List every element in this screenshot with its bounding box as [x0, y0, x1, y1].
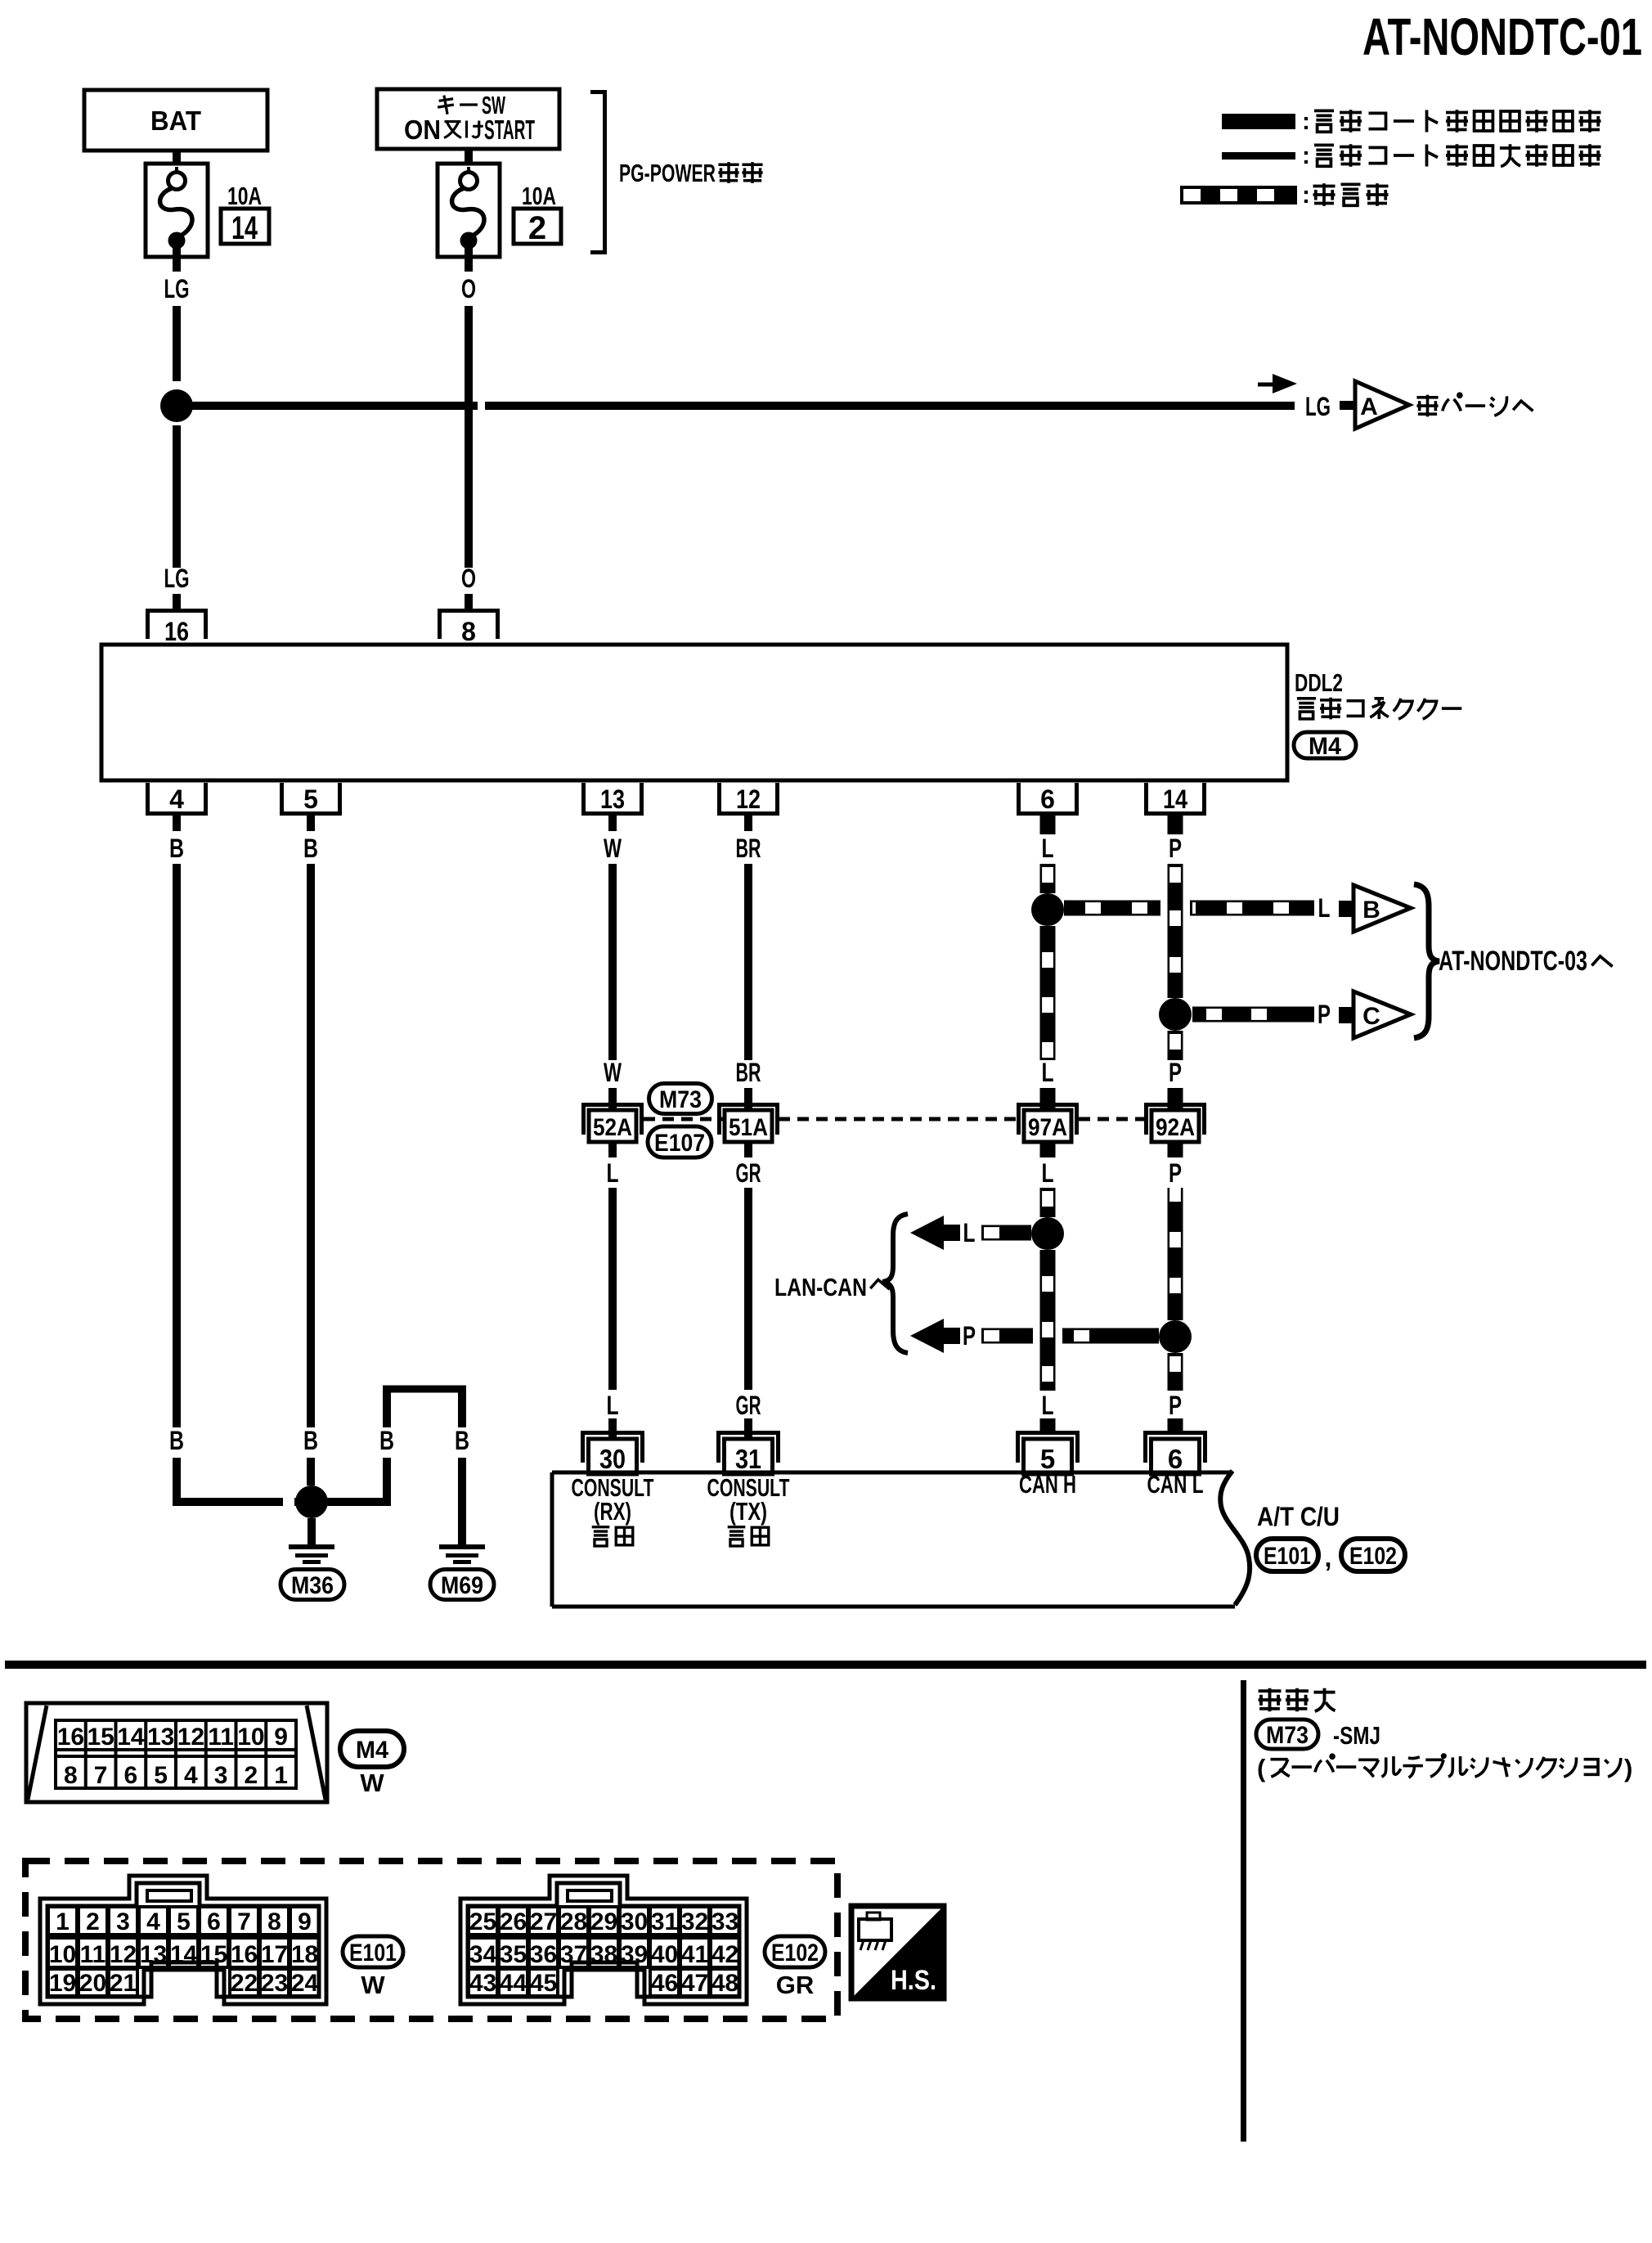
svg-text:E102: E102 — [771, 1940, 819, 1967]
svg-text:45: 45 — [530, 1970, 557, 1997]
svg-text:CAN L: CAN L — [1147, 1470, 1204, 1499]
svg-text:L: L — [607, 1158, 619, 1188]
svg-text:2: 2 — [528, 210, 546, 246]
svg-text:L: L — [1042, 1158, 1054, 1188]
svg-text:7: 7 — [94, 1762, 108, 1789]
svg-text:M69: M69 — [441, 1572, 483, 1599]
svg-text:M73: M73 — [659, 1086, 702, 1113]
svg-text:10A: 10A — [227, 182, 262, 210]
svg-text:12: 12 — [177, 1724, 204, 1751]
svg-text:PG-POWER: PG-POWER — [619, 159, 716, 187]
svg-text:): ) — [1624, 1754, 1632, 1782]
svg-text:P: P — [1169, 1391, 1182, 1420]
svg-text:28: 28 — [560, 1908, 587, 1935]
svg-text:31: 31 — [651, 1908, 678, 1935]
svg-text:M4: M4 — [1309, 733, 1341, 760]
svg-text:4: 4 — [184, 1762, 198, 1789]
svg-text:37: 37 — [560, 1941, 587, 1968]
svg-text:GR: GR — [736, 1158, 761, 1188]
svg-text:52A: 52A — [593, 1114, 632, 1141]
svg-text:14: 14 — [170, 1941, 198, 1968]
svg-text:LG: LG — [164, 274, 190, 303]
svg-text:B: B — [169, 834, 184, 863]
svg-text:15: 15 — [87, 1724, 114, 1751]
svg-text:B: B — [379, 1426, 394, 1455]
svg-text:48: 48 — [712, 1970, 738, 1997]
svg-text:1: 1 — [56, 1908, 70, 1935]
svg-text:6: 6 — [1040, 784, 1055, 814]
svg-text:START: START — [484, 115, 535, 145]
svg-text:L: L — [1042, 1391, 1054, 1420]
svg-text:23: 23 — [261, 1970, 288, 1997]
svg-text:30: 30 — [621, 1908, 648, 1935]
svg-text:BAT: BAT — [150, 106, 201, 136]
svg-text:E101: E101 — [349, 1940, 397, 1967]
svg-text:L: L — [963, 1218, 976, 1247]
svg-text:40: 40 — [651, 1941, 678, 1968]
svg-text:2: 2 — [245, 1762, 258, 1789]
svg-text:21: 21 — [110, 1970, 137, 1997]
svg-text:16: 16 — [164, 617, 189, 646]
svg-text:26: 26 — [500, 1908, 527, 1935]
svg-text:92A: 92A — [1156, 1114, 1195, 1141]
svg-text:8: 8 — [267, 1908, 281, 1935]
svg-text:33: 33 — [712, 1908, 738, 1935]
svg-text:47: 47 — [681, 1970, 708, 1997]
svg-text::: : — [1302, 108, 1310, 135]
svg-text:19: 19 — [49, 1970, 76, 1997]
svg-text:9: 9 — [298, 1908, 312, 1935]
svg-text::: : — [1302, 142, 1310, 169]
svg-text:3: 3 — [214, 1762, 228, 1789]
svg-text:13: 13 — [140, 1941, 167, 1968]
svg-text:32: 32 — [681, 1908, 708, 1935]
svg-text:6: 6 — [207, 1908, 221, 1935]
svg-text:12: 12 — [110, 1941, 137, 1968]
svg-text:35: 35 — [500, 1941, 527, 1968]
svg-text:39: 39 — [621, 1941, 648, 1968]
svg-text:42: 42 — [712, 1941, 738, 1968]
svg-text::: : — [1302, 182, 1310, 209]
svg-text:30: 30 — [599, 1444, 626, 1474]
svg-text:W: W — [360, 1769, 384, 1797]
svg-text:A/T C/U: A/T C/U — [1257, 1502, 1340, 1531]
svg-text:P: P — [963, 1321, 976, 1351]
svg-text:10A: 10A — [522, 182, 556, 210]
svg-text:5: 5 — [177, 1908, 191, 1935]
svg-text:B: B — [455, 1426, 469, 1455]
svg-text:24: 24 — [291, 1970, 319, 1997]
svg-text:O: O — [461, 564, 476, 593]
svg-text:16: 16 — [57, 1724, 84, 1751]
svg-text:11: 11 — [80, 1941, 106, 1968]
svg-text:B: B — [303, 1426, 318, 1455]
svg-text:1: 1 — [274, 1762, 288, 1789]
svg-text:20: 20 — [79, 1970, 106, 1997]
svg-text:A: A — [1360, 393, 1378, 420]
svg-text:12: 12 — [736, 784, 761, 814]
svg-text:13: 13 — [147, 1724, 174, 1751]
svg-text:5: 5 — [154, 1762, 168, 1789]
svg-text:B: B — [169, 1426, 184, 1455]
svg-text:8: 8 — [461, 617, 476, 646]
svg-text:C: C — [1362, 1003, 1380, 1030]
svg-text:14: 14 — [231, 210, 258, 246]
svg-text:25: 25 — [469, 1908, 496, 1935]
svg-text:38: 38 — [590, 1941, 617, 1968]
svg-text:27: 27 — [530, 1908, 557, 1935]
svg-text:4: 4 — [169, 784, 184, 814]
svg-text:GR: GR — [776, 1971, 815, 1999]
svg-text:97A: 97A — [1028, 1114, 1067, 1141]
svg-text:B: B — [303, 834, 318, 863]
svg-text:E102: E102 — [1349, 1543, 1397, 1570]
svg-text:51A: 51A — [729, 1114, 768, 1141]
svg-text:ON: ON — [404, 115, 441, 145]
svg-text:L: L — [1042, 834, 1054, 863]
svg-text:46: 46 — [651, 1970, 678, 1997]
svg-text:(TX): (TX) — [729, 1497, 767, 1526]
svg-text:BR: BR — [736, 1058, 761, 1087]
svg-text:L: L — [1318, 893, 1331, 923]
svg-text:44: 44 — [500, 1970, 527, 1997]
svg-text:M73: M73 — [1266, 1722, 1309, 1749]
svg-text:B: B — [1362, 897, 1380, 924]
svg-text:6: 6 — [124, 1762, 138, 1789]
svg-text:(RX): (RX) — [594, 1497, 631, 1526]
svg-text:AT-NONDTC-03: AT-NONDTC-03 — [1439, 946, 1587, 977]
svg-text:9: 9 — [274, 1724, 288, 1751]
svg-text:DDL2: DDL2 — [1295, 668, 1343, 697]
svg-text:15: 15 — [200, 1941, 227, 1968]
svg-text:10: 10 — [237, 1724, 264, 1751]
svg-text:10: 10 — [49, 1941, 76, 1968]
svg-text:18: 18 — [291, 1941, 318, 1968]
svg-text:14: 14 — [117, 1724, 145, 1751]
svg-text:4: 4 — [146, 1908, 160, 1935]
svg-text:2: 2 — [86, 1908, 100, 1935]
svg-text:,: , — [1325, 1543, 1332, 1572]
svg-text:BR: BR — [736, 834, 761, 863]
svg-text:H.S.: H.S. — [891, 1965, 936, 1996]
svg-text:-SMJ: -SMJ — [1333, 1721, 1380, 1750]
svg-text:W: W — [604, 834, 622, 863]
svg-text:3: 3 — [116, 1908, 130, 1935]
svg-text:P: P — [1169, 1158, 1182, 1188]
svg-text:8: 8 — [64, 1762, 78, 1789]
svg-text:E107: E107 — [654, 1130, 705, 1157]
svg-text:16: 16 — [231, 1941, 258, 1968]
svg-text:17: 17 — [261, 1941, 288, 1968]
svg-text:P: P — [1169, 1058, 1182, 1087]
svg-text:5: 5 — [303, 784, 318, 814]
svg-text:(: ( — [1257, 1754, 1266, 1782]
svg-text:43: 43 — [469, 1970, 496, 1997]
svg-text:31: 31 — [735, 1444, 761, 1474]
svg-text:41: 41 — [681, 1941, 708, 1968]
svg-text:W: W — [604, 1058, 622, 1087]
svg-text:P: P — [1318, 1000, 1331, 1029]
svg-text:7: 7 — [237, 1908, 251, 1935]
svg-text:AT-NONDTC-01: AT-NONDTC-01 — [1362, 7, 1642, 66]
svg-text:E101: E101 — [1264, 1543, 1311, 1570]
svg-text:LG: LG — [1305, 392, 1331, 421]
svg-text:LG: LG — [164, 564, 190, 593]
svg-text:29: 29 — [590, 1908, 617, 1935]
svg-text:36: 36 — [530, 1941, 557, 1968]
svg-text:L: L — [1042, 1058, 1054, 1087]
svg-text:M36: M36 — [291, 1572, 334, 1599]
svg-text:O: O — [461, 274, 476, 303]
svg-text:M4: M4 — [356, 1737, 388, 1764]
svg-text:P: P — [1169, 834, 1182, 863]
svg-text:CAN H: CAN H — [1019, 1470, 1076, 1499]
svg-text:W: W — [361, 1971, 385, 1999]
svg-text:11: 11 — [208, 1724, 234, 1751]
svg-text:LAN-CAN: LAN-CAN — [774, 1273, 867, 1301]
svg-text:GR: GR — [736, 1391, 761, 1420]
svg-text:13: 13 — [600, 784, 625, 814]
svg-text:22: 22 — [231, 1970, 258, 1997]
svg-text:14: 14 — [1163, 784, 1187, 814]
svg-text:34: 34 — [469, 1941, 497, 1968]
svg-text:L: L — [607, 1391, 619, 1420]
